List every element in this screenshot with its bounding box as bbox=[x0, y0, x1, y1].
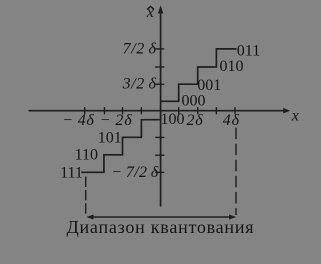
y-axis arrowhead bbox=[158, 5, 163, 13]
svg-text:011: 011 bbox=[237, 43, 260, 60]
svg-text:7/2 δ: 7/2 δ bbox=[123, 40, 157, 57]
svg-text:x: x bbox=[291, 107, 299, 124]
svg-text:2δ: 2δ bbox=[187, 112, 204, 129]
range double arrow bbox=[90, 216, 233, 218]
x-axis bbox=[29, 110, 285, 112]
x-axis arrowhead bbox=[283, 108, 290, 113]
svg-text:4δ: 4δ bbox=[223, 112, 240, 129]
svg-text:Диапазон квантования: Диапазон квантования bbox=[67, 217, 254, 237]
staircase negative bbox=[81, 120, 160, 173]
svg-text:111: 111 bbox=[60, 165, 83, 182]
dashed line left (-4d) bbox=[85, 177, 87, 214]
svg-text:− 4δ: − 4δ bbox=[62, 112, 94, 129]
y ticks bbox=[155, 49, 164, 172]
svg-text:000: 000 bbox=[182, 92, 206, 109]
staircase positive bbox=[161, 49, 237, 101]
svg-text:− 2δ: − 2δ bbox=[100, 112, 133, 129]
x ticks bbox=[85, 107, 235, 114]
svg-text:110: 110 bbox=[75, 146, 98, 163]
svg-text:010: 010 bbox=[220, 58, 244, 75]
svg-text:100: 100 bbox=[161, 111, 185, 128]
svg-text:− 7/2 δ: − 7/2 δ bbox=[111, 164, 158, 181]
svg-text:101: 101 bbox=[98, 129, 122, 146]
dashed line right (+4d) bbox=[235, 128, 237, 215]
y-axis bbox=[160, 13, 162, 207]
svg-text:001: 001 bbox=[197, 77, 221, 94]
svg-text:3/2 δ: 3/2 δ bbox=[122, 76, 157, 93]
